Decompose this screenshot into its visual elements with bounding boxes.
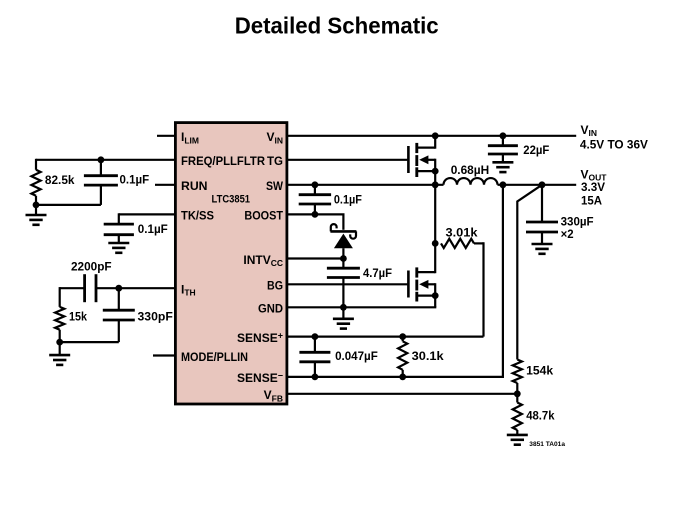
- wire INTVCC: [287, 257, 343, 259]
- node SENSE+ 30.1k junction: [399, 333, 406, 340]
- capacitor C 2200pF (series): [83, 274, 86, 302]
- ground (48.7k): [507, 434, 528, 437]
- transistor Q1 channel: [415, 143, 418, 153]
- svg-text:0.1µF: 0.1µF: [334, 192, 362, 206]
- svg-text:0.047µF: 0.047µF: [335, 349, 378, 363]
- svg-text:2200pF: 2200pF: [71, 260, 112, 274]
- capacitor C 0.047uF: [314, 337, 316, 353]
- resistor R 82.5k: [35, 159, 37, 170]
- node Q1 source-body junction: [432, 168, 439, 175]
- wire TK/SS: [119, 213, 176, 215]
- resistor R 3.01k: [441, 239, 474, 248]
- node VIN-Q1 junction: [432, 132, 439, 139]
- capacitor C 330uF x2: [541, 185, 543, 222]
- svg-text:3.3V: 3.3V: [581, 180, 605, 194]
- diode D1 cathode left hook: [331, 224, 337, 231]
- node SW-3.01k junction: [432, 240, 439, 247]
- node SENSE- 30.1k junction: [399, 374, 406, 381]
- capacitor C 330pF: [118, 288, 120, 310]
- ground (22uF): [492, 161, 513, 164]
- svg-text:82.5k: 82.5k: [45, 173, 75, 187]
- wire SENSE-: [287, 376, 504, 378]
- wire SW: [287, 184, 444, 186]
- svg-text:22µF: 22µF: [523, 143, 549, 157]
- svg-text:48.7k: 48.7k: [526, 408, 555, 422]
- svg-text:×2: ×2: [561, 227, 574, 241]
- ground (TK/SS): [108, 242, 129, 245]
- wire VIN rail: [287, 135, 576, 137]
- wire BOOST: [287, 213, 345, 215]
- transistor Q2 source stub: [417, 295, 435, 297]
- transistor Q1 source stub: [417, 170, 435, 172]
- transistor Q2 drain stub: [417, 271, 435, 273]
- wire ITH right: [96, 287, 176, 289]
- svg-text:BG: BG: [267, 279, 283, 293]
- wire FREQ/PLLFLTR: [36, 159, 176, 161]
- node SW-Q1 junction: [432, 181, 439, 188]
- svg-text:SENSE−: SENSE−: [237, 371, 283, 386]
- wire SENSE+: [287, 336, 484, 338]
- svg-text:330pF: 330pF: [138, 309, 173, 323]
- resistor R 48.7k: [516, 394, 518, 403]
- svg-text:0.68µH: 0.68µH: [451, 163, 490, 177]
- capacitor C 0.1uF (BOOST): [314, 185, 316, 195]
- wire GND pin: [287, 306, 436, 308]
- svg-text:MODE/PLLIN: MODE/PLLIN: [181, 350, 248, 364]
- svg-text:Detailed Schematic: Detailed Schematic: [235, 12, 439, 38]
- ground (330uF): [532, 243, 553, 246]
- capacitor C 0.1uF (TK/SS): [104, 223, 134, 226]
- svg-text:15A: 15A: [581, 193, 602, 207]
- svg-text:154k: 154k: [526, 363, 553, 377]
- node SENSE+ cap junction: [312, 333, 319, 340]
- ground (15k): [59, 342, 61, 355]
- transistor Q1 body arrow: [419, 155, 428, 164]
- svg-text:FREQ/PLLFLTR: FREQ/PLLFLTR: [181, 154, 265, 168]
- svg-text:TG: TG: [267, 154, 283, 168]
- ground (82.5k): [35, 205, 37, 215]
- diode D1 cathode right hook: [350, 231, 356, 238]
- svg-text:SW: SW: [266, 179, 284, 193]
- capacitor C 0.1uF (FREQ): [100, 160, 102, 176]
- wire BG: [287, 283, 407, 285]
- node GND-4.7uF junction: [340, 304, 347, 311]
- node ITH junction: [115, 285, 122, 292]
- svg-text:GND: GND: [258, 302, 283, 316]
- svg-text:TK/SS: TK/SS: [181, 209, 214, 223]
- capacitor C 4.7uF: [342, 259, 344, 269]
- svg-text:RUN: RUN: [181, 179, 208, 193]
- op-amp U1 LTC3851 body: [175, 123, 287, 404]
- wire RUN stub: [155, 184, 176, 186]
- node 15k-gnd junction: [56, 339, 63, 346]
- wire VFB: [287, 393, 517, 395]
- svg-text:4.5V TO 36V: 4.5V TO 36V: [580, 137, 648, 151]
- transistor Q2 body arrow: [419, 280, 428, 289]
- svg-text:LTC3851: LTC3851: [212, 193, 251, 205]
- transistor Q2 channel: [415, 267, 418, 277]
- diode D1 anode lead: [342, 248, 344, 258]
- transistor Q2 gate bar: [407, 271, 410, 298]
- node VIN-22uF junction: [500, 132, 507, 139]
- svg-text:3.01k: 3.01k: [446, 225, 478, 239]
- svg-text:15k: 15k: [69, 309, 87, 323]
- ground (GND pin): [342, 307, 344, 319]
- node Q2 source-body junction: [432, 292, 439, 299]
- svg-text:SENSE+: SENSE+: [237, 330, 283, 345]
- wire TG: [287, 159, 407, 161]
- resistor R 30.1k: [402, 337, 404, 342]
- svg-text:BOOST: BOOST: [244, 209, 283, 223]
- wire 82.5k bottom: [36, 204, 101, 206]
- svg-text:3851 TA01a: 3851 TA01a: [529, 441, 565, 448]
- diode D1 triangle: [334, 234, 353, 249]
- resistor R 154k: [513, 360, 522, 383]
- transistor Q1 gate bar: [407, 146, 410, 173]
- wire VOUT-kelvin diagonal: [517, 185, 542, 360]
- wire MODE/PLLIN stub: [153, 354, 176, 356]
- wire ITH left: [60, 287, 85, 289]
- node INTVCC junction: [340, 255, 347, 262]
- transistor Q1 drain stub: [417, 147, 435, 149]
- node SW-boost-cap junction: [312, 181, 319, 188]
- wire SENSE- to VOUT: [502, 185, 504, 377]
- node VOUT-sense junction: [500, 181, 507, 188]
- svg-text:30.1k: 30.1k: [412, 349, 444, 363]
- node SENSE- cap junction: [312, 374, 319, 381]
- diode D1 cathode bar: [330, 230, 356, 233]
- node BOOST-cap junction: [312, 211, 319, 218]
- node VOUT-330uF junction: [539, 181, 546, 188]
- node VFB junction: [514, 390, 521, 397]
- inductor L 0.68uH: [444, 178, 498, 185]
- resistor R 15k: [59, 287, 61, 307]
- wire VOUT rail: [498, 184, 577, 186]
- svg-text:0.1µF: 0.1µF: [120, 173, 150, 187]
- capacitor C 22uF: [502, 136, 504, 146]
- wire 15k bottom: [60, 341, 119, 343]
- node FREQ-cap junction: [98, 156, 105, 163]
- svg-text:4.7µF: 4.7µF: [363, 266, 392, 280]
- wire SW-to-3.01k: [434, 185, 436, 244]
- wire ILIM stub: [157, 135, 176, 137]
- node 82.5k-gnd junction: [33, 202, 40, 209]
- svg-text:0.1µF: 0.1µF: [138, 222, 168, 236]
